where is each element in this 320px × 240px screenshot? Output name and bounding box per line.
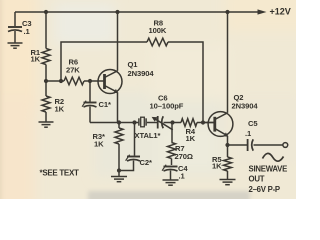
svg-text:.1: .1: [245, 129, 252, 138]
svg-text:C2*: C2*: [140, 158, 153, 167]
svg-text:1K: 1K: [94, 140, 104, 149]
svg-text:.1: .1: [24, 27, 31, 36]
svg-text:C1*: C1*: [99, 100, 112, 109]
svg-text:*SEE TEXT: *SEE TEXT: [40, 169, 80, 178]
svg-text:10–100pF: 10–100pF: [150, 102, 184, 111]
svg-text:2–6V P-P: 2–6V P-P: [249, 185, 280, 194]
svg-text:1K: 1K: [212, 161, 222, 170]
svg-text:100K: 100K: [149, 26, 167, 35]
svg-text:1K: 1K: [31, 55, 41, 64]
svg-text:1K: 1K: [186, 134, 196, 143]
svg-text:SINEWAVE: SINEWAVE: [249, 165, 288, 174]
svg-text:.1: .1: [179, 171, 186, 180]
svg-text:27K: 27K: [66, 66, 80, 75]
svg-text:2N3904: 2N3904: [128, 69, 155, 78]
svg-text:270Ω: 270Ω: [175, 152, 193, 161]
svg-text:C5: C5: [248, 119, 258, 128]
svg-text:2N3904: 2N3904: [232, 102, 259, 111]
svg-text:1K: 1K: [55, 105, 65, 114]
svg-text:OUT: OUT: [249, 175, 265, 184]
svg-text:+12V: +12V: [270, 7, 291, 17]
svg-text:XTAL1*: XTAL1*: [135, 131, 161, 140]
svg-text:Q1: Q1: [128, 60, 139, 69]
